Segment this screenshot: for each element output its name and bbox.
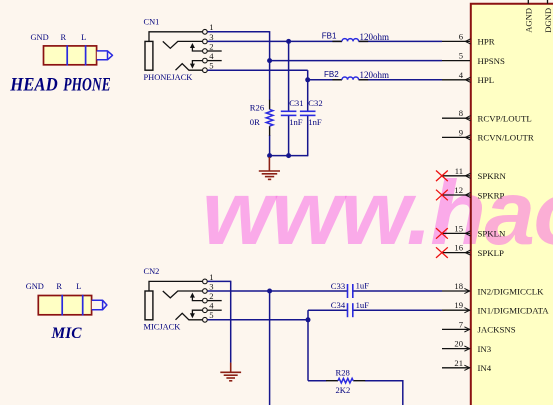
svg-text:SPKRP: SPKRP — [478, 190, 505, 200]
svg-text:C32: C32 — [308, 98, 322, 108]
svg-text:1uF: 1uF — [356, 281, 370, 291]
junction CN2 pin5 / C34 node — [306, 317, 311, 322]
micjack CN2 sleeve line to pin 1 — [149, 281, 202, 291]
micjack CN2 switch arrow down (pin 4) — [192, 310, 202, 315]
IC pin 9 stub — [442, 136, 470, 138]
svg-text:IN4: IN4 — [478, 363, 492, 373]
micjack CN2 pin 4 circle — [203, 308, 208, 313]
IC pin 15 chevron out — [465, 231, 470, 236]
wire CN1 pin5 to corner — [208, 69, 308, 71]
svg-text:7: 7 — [459, 319, 464, 329]
svg-text:20: 20 — [454, 339, 463, 349]
svg-text:3: 3 — [209, 32, 213, 42]
svg-text:15: 15 — [454, 223, 463, 233]
IC pin 20 stub — [442, 348, 470, 350]
svg-text:HPSNS: HPSNS — [478, 56, 505, 66]
svg-text:R28: R28 — [336, 368, 350, 378]
svg-text:MICJACK: MICJACK — [144, 322, 181, 331]
svg-text:FB2: FB2 — [324, 70, 339, 79]
svg-text:12: 12 — [454, 185, 463, 195]
junction FB2/C32 node — [305, 77, 310, 82]
IC pin 7 stub — [442, 328, 470, 330]
micjack CN2 body rectangle — [145, 291, 153, 320]
svg-text:5: 5 — [459, 51, 463, 61]
IC pin 21 stub — [442, 367, 470, 369]
headphone jack icon divider 2 — [85, 45, 87, 65]
svg-text:16: 16 — [454, 243, 463, 253]
junction C31/ground bus — [286, 153, 291, 158]
phonejack CN1 switch arrow down (pin 4) — [192, 61, 202, 66]
wire HPR net: CN1 pin3 to FB1 — [208, 40, 342, 42]
ferrite bead FB2 leads — [332, 79, 342, 81]
phonejack CN1 pin 5 circle — [203, 68, 208, 73]
mic plug tip — [92, 300, 107, 310]
wire bottom ground trunk vertical — [230, 281, 232, 363]
IC pin 9 chevron out — [465, 135, 470, 140]
IC pin 16 stub — [442, 252, 470, 254]
phonejack CN1 pin 4 stub — [208, 60, 222, 62]
no-connect X on pin 16 — [436, 247, 448, 258]
wire CN2 pin1 to ground trunk — [208, 280, 231, 282]
IC U1 body — [470, 3, 553, 405]
mic jack icon divider 2 — [82, 295, 84, 316]
junction HPR/C31 — [286, 39, 291, 44]
IC pin 4 chevron out — [465, 77, 470, 82]
svg-text:IN2/DIGMICCLK: IN2/DIGMICCLK — [478, 286, 545, 296]
IC pin 6 stub — [442, 40, 470, 42]
phonejack CN1 switch arrow up (pin 2) — [192, 46, 202, 51]
wire R26 lower lead to ground line — [269, 135, 271, 156]
resistor R26 leads — [269, 100, 271, 110]
phonejack CN1 ring contact (pin 5) — [176, 64, 203, 70]
IC U1 border — [471, 4, 553, 405]
svg-text:19: 19 — [454, 300, 463, 310]
phonejack CN1 pin 3 circle — [203, 39, 208, 44]
micjack CN2 switch arrow up (pin 2) — [192, 296, 202, 301]
no-connect X on pin 12 — [436, 190, 448, 201]
mic jack icon body — [38, 296, 91, 315]
micjack CN2 pin 1 circle — [203, 279, 208, 284]
phonejack CN1 pin 2 stub — [208, 50, 222, 52]
capacitor C31 plates — [281, 110, 297, 112]
svg-text:IN1/DIGMICDATA: IN1/DIGMICDATA — [478, 306, 550, 316]
svg-text:120ohm: 120ohm — [360, 32, 390, 42]
svg-text:1: 1 — [209, 22, 213, 32]
IC pin 12 stub — [442, 194, 470, 196]
svg-text:L: L — [76, 282, 81, 291]
IC pin 8 stub — [442, 117, 470, 119]
resistor R28 leads — [326, 380, 338, 382]
IC pin 8 chevron out — [465, 116, 470, 121]
svg-text:120ohm: 120ohm — [360, 70, 390, 80]
svg-text:HPL: HPL — [478, 75, 495, 85]
wire C32 vertical lower to ground line — [307, 116, 309, 157]
svg-text:4: 4 — [209, 51, 214, 61]
svg-text:2K2: 2K2 — [336, 385, 351, 395]
micjack CN2 tip contact (pin 3) — [163, 291, 202, 298]
IC pin 20 chevron in — [464, 346, 469, 351]
IC pin 19 chevron in — [464, 308, 469, 313]
wire R28 drop to bottom edge — [402, 380, 404, 405]
wire HPSNS net: trunk to IC pin 5 — [270, 60, 442, 62]
svg-text:HEAD: HEAD — [9, 74, 57, 95]
svg-text:0R: 0R — [250, 117, 260, 127]
svg-text:1nF: 1nF — [308, 117, 322, 127]
svg-text:R26: R26 — [250, 103, 265, 113]
svg-text:RCVN/LOUTR: RCVN/LOUTR — [478, 133, 534, 143]
IC pin 4 stub — [442, 79, 470, 81]
svg-text:PHONEJACK: PHONEJACK — [144, 73, 193, 82]
svg-text:18: 18 — [454, 281, 463, 291]
svg-text:L: L — [81, 33, 86, 42]
resistor R26 zigzag — [266, 109, 273, 126]
svg-text:C33: C33 — [331, 281, 345, 291]
phonejack CN1 sleeve line to pin 1 — [149, 32, 202, 42]
wire HPL net: junction to FB2 — [308, 79, 342, 81]
svg-text:1uF: 1uF — [356, 300, 370, 310]
capacitor C32 plates — [300, 110, 316, 112]
ferrite bead FB1 leads — [332, 40, 342, 42]
ground symbol (top, audio) — [259, 157, 280, 179]
IC top pin DGND — [547, 0, 549, 4]
wire R28 line left — [308, 380, 326, 382]
svg-text:MIC: MIC — [51, 325, 83, 342]
svg-text:SPKLN: SPKLN — [478, 229, 507, 239]
micjack CN2 pin 2 circle — [203, 298, 208, 303]
phonejack CN1 pin 2 circle — [203, 49, 208, 54]
IC pin 5 stub — [442, 60, 470, 62]
svg-text:6: 6 — [459, 31, 464, 41]
wire HPR net: FB1 to IC pin 6 — [359, 40, 442, 42]
ferrite bead FB1 coil — [342, 39, 359, 42]
svg-text:R: R — [61, 33, 67, 42]
micjack CN2 pin 2 stub — [208, 300, 222, 302]
wire net down from CN2 pin3 junction — [269, 291, 271, 405]
junction trunk/ground bus — [267, 153, 272, 158]
wire CN2 pin5 to C34 branch — [208, 319, 308, 321]
headphone plug tip — [97, 51, 113, 60]
svg-text:8: 8 — [459, 108, 463, 118]
IC pin 18 chevron in — [464, 288, 469, 293]
svg-text:PHONE: PHONE — [62, 74, 110, 95]
micjack CN2 ring contact (pin 5) — [176, 313, 203, 320]
no-connect X on pin 15 — [436, 228, 448, 239]
svg-text:2: 2 — [209, 291, 213, 301]
svg-text:CN1: CN1 — [144, 18, 160, 27]
phonejack CN1 tip contact (pin 3) — [163, 41, 202, 48]
wire ground bus horizontal — [270, 155, 308, 157]
resistor R28 zigzag — [338, 378, 353, 383]
svg-text:11: 11 — [455, 166, 463, 176]
wire CN1 pin1 to ground trunk — [208, 31, 270, 33]
svg-text:5: 5 — [209, 310, 213, 320]
wire IN1 net: C34 to IC pin 19 — [353, 309, 442, 311]
phonejack CN1 pin 4 circle — [203, 58, 208, 63]
capacitor C34 plates — [347, 303, 349, 317]
IC pin 7 chevron in — [464, 327, 469, 332]
IC pin 6 chevron out — [465, 39, 470, 44]
micjack CN2 pin 5 circle — [203, 317, 208, 322]
wire C32 vertical upper (HPL net) — [307, 80, 309, 111]
mic jack icon divider 1 — [61, 295, 63, 316]
micjack CN2 pin 3 circle — [203, 289, 208, 294]
wire C34 branch corner — [307, 310, 309, 381]
wire IN2 net: C33 to IC pin 18 — [353, 290, 442, 292]
headphone jack icon divider 1 — [66, 45, 68, 65]
svg-text:9: 9 — [459, 127, 463, 137]
micjack CN2 pin 4 stub — [208, 309, 222, 311]
IC pin 18 stub — [442, 290, 470, 292]
IC pin 19 stub — [442, 309, 470, 311]
svg-text:2: 2 — [209, 41, 213, 51]
wire HPL net: FB2 to IC pin 4 — [359, 79, 442, 81]
IC top pin AGND — [527, 0, 529, 4]
svg-text:SPKRN: SPKRN — [478, 171, 507, 181]
svg-text:GND: GND — [31, 33, 49, 42]
svg-text:GND: GND — [26, 282, 44, 291]
svg-text:1: 1 — [209, 272, 213, 282]
svg-text:CN2: CN2 — [144, 267, 160, 276]
headphone jack icon body — [44, 46, 97, 65]
IC pin 12 chevron out — [465, 192, 470, 197]
wire IN1 net: corner to C34 — [308, 309, 348, 311]
svg-text:FB1: FB1 — [322, 32, 337, 41]
svg-text:JACKSNS: JACKSNS — [478, 325, 516, 335]
svg-text:21: 21 — [454, 358, 463, 368]
svg-text:5: 5 — [209, 61, 213, 71]
svg-text:C34: C34 — [331, 300, 346, 310]
IC pin 21 chevron in — [464, 365, 469, 370]
svg-text:R: R — [56, 282, 62, 291]
svg-text:C31: C31 — [289, 98, 303, 108]
IC pin 11 stub — [442, 175, 470, 177]
IC pin 15 stub — [442, 232, 470, 234]
svg-text:1nF: 1nF — [289, 117, 303, 127]
svg-text:AGND: AGND — [524, 8, 534, 33]
svg-text:3: 3 — [209, 281, 213, 291]
svg-text:HPR: HPR — [478, 37, 495, 47]
svg-text:DGND: DGND — [543, 8, 553, 33]
svg-text:4: 4 — [209, 301, 214, 311]
wire R28 line right — [365, 380, 403, 382]
wire ground trunk vertical upper (CN1-1 / R26) — [269, 31, 271, 100]
phonejack CN1 pin 1 circle — [203, 29, 208, 34]
ferrite bead FB2 coil — [342, 77, 359, 80]
IC pin 16 chevron out — [465, 250, 470, 255]
wire CN2 pin3 to C33 — [208, 290, 348, 292]
wire CN1 pin5 corner down to FB2 line — [307, 70, 309, 80]
junction trunk/HPSNS — [267, 58, 272, 63]
svg-text:4: 4 — [459, 70, 464, 80]
ground symbol (bottom, mic) — [220, 363, 241, 381]
svg-text:SPKLP: SPKLP — [478, 248, 505, 258]
svg-text:IN3: IN3 — [478, 344, 492, 354]
no-connect X on pin 11 — [436, 171, 448, 182]
capacitor C33 plates — [347, 284, 349, 298]
IC pin 11 chevron out — [465, 173, 470, 178]
wire C31 vertical lower to ground line — [288, 116, 290, 157]
wire C31 vertical upper (HPR net) — [288, 41, 290, 110]
svg-text:RCVP/LOUTL: RCVP/LOUTL — [478, 114, 532, 124]
phonejack CN1 body rectangle — [145, 41, 153, 70]
junction CN2 pin3 node — [267, 289, 272, 294]
